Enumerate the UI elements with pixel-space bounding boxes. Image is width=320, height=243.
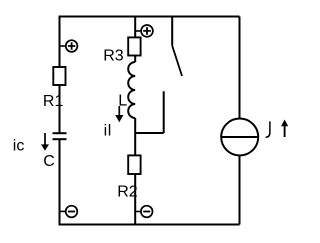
svg-text:L: L xyxy=(118,93,127,110)
resistor R1 xyxy=(53,67,65,85)
wire switch lower contact xyxy=(135,91,164,133)
svg-text:ic: ic xyxy=(13,138,25,155)
capacitor C plates xyxy=(53,133,67,139)
resistor R3 xyxy=(128,37,140,55)
svg-text:R1: R1 xyxy=(43,93,64,110)
svg-text:C: C xyxy=(43,153,55,170)
wire stub minus middle xyxy=(135,211,142,213)
svg-text:R2: R2 xyxy=(117,184,138,201)
wire switch vertical top xyxy=(171,17,173,46)
wire stub plus left xyxy=(60,45,69,47)
resistor R2 xyxy=(128,155,140,174)
wire right xyxy=(239,17,241,225)
wire top xyxy=(60,16,240,18)
polarity minus bottom-left xyxy=(66,206,78,218)
wire stub plus middle xyxy=(135,30,142,32)
wire left xyxy=(59,16,61,226)
wire middle branch xyxy=(134,16,136,225)
current source J xyxy=(221,119,258,156)
current arrow J up xyxy=(281,120,288,138)
inductor L coil xyxy=(128,62,135,118)
polarity plus top-left xyxy=(66,40,78,52)
switch S1 blade xyxy=(172,46,182,76)
wire stub minus left xyxy=(60,210,69,212)
svg-text:il: il xyxy=(104,123,112,140)
current arrow il xyxy=(115,106,123,122)
current arrow ic xyxy=(41,133,49,151)
label J xyxy=(266,121,270,137)
svg-text:R3: R3 xyxy=(103,47,124,64)
polarity plus middle xyxy=(141,25,153,37)
polarity minus bottom-middle xyxy=(141,206,153,218)
wire bottom xyxy=(60,224,240,226)
